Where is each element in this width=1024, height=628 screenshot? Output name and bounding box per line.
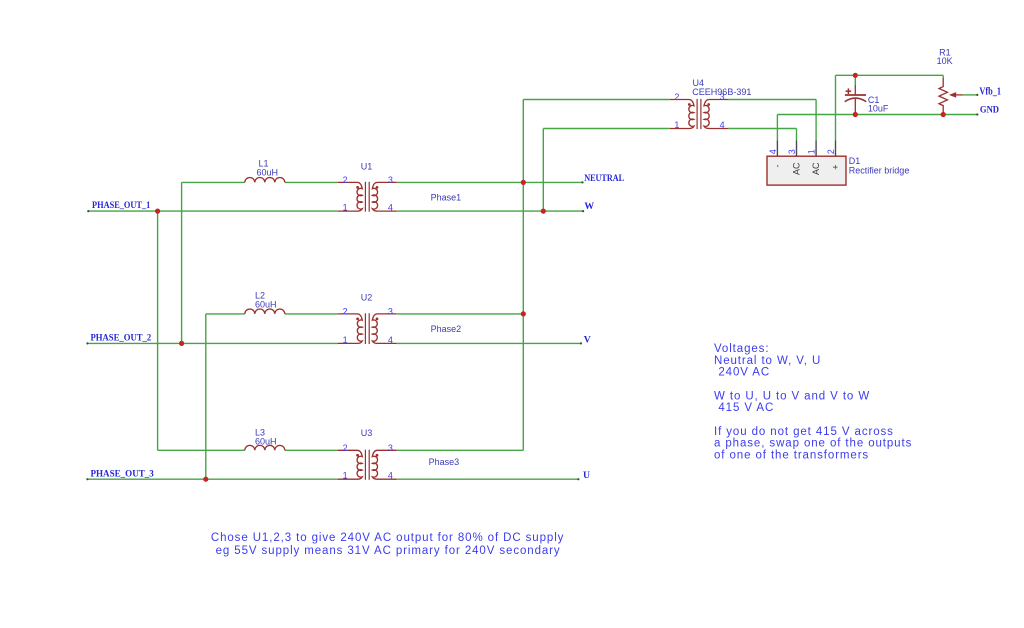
junction PHASE_OUT_2 bus — [179, 341, 184, 346]
wire L3 to U3 pin2 — [285, 449, 338, 451]
wire U1 pin3 to NEUTRAL — [397, 181, 583, 183]
svg-text:2: 2 — [343, 175, 348, 185]
wire U4 pin4 down to D1 pin3 — [796, 129, 798, 141]
svg-text:2: 2 — [343, 307, 348, 317]
junction neutral bus Phase2 — [521, 311, 526, 316]
junction top rail C1 — [853, 73, 858, 78]
svg-text:4: 4 — [388, 203, 393, 213]
svg-text:U3: U3 — [361, 428, 373, 438]
endpoint GND — [976, 113, 978, 115]
D1 pin stub 1 — [815, 140, 817, 156]
wire U3 pin3 to neutral bus — [397, 449, 524, 451]
wire neutral bus vertical — [522, 100, 524, 451]
endpoint V — [580, 342, 582, 344]
svg-text:60uH: 60uH — [257, 168, 279, 178]
svg-text:4: 4 — [388, 335, 393, 345]
inductor L2 body — [245, 309, 285, 314]
D1 pin stub 4 — [776, 140, 778, 156]
wire W bus to U4 pin1 — [543, 128, 669, 130]
svg-text:2: 2 — [343, 443, 348, 453]
svg-text:AC: AC — [792, 162, 802, 175]
wire neutral bus to U4 pin2 — [523, 99, 669, 101]
wire L3 top left segment — [158, 449, 245, 451]
endpoint PHASE_OUT_3 — [86, 478, 88, 480]
D1 pin stub 2 — [835, 140, 837, 156]
wire U2 pin4 to V — [397, 342, 581, 344]
junction NEUTRAL Phase1 — [521, 180, 526, 185]
transformer U1 body — [338, 182, 362, 211]
wire R1 top lead green — [942, 75, 944, 79]
wire U3 pin4 to U — [397, 478, 579, 480]
svg-text:3: 3 — [388, 175, 393, 185]
wire vertical L1 to PHASE_OUT_2 — [181, 182, 183, 343]
wire U4 pin3 down to D1 pin1 — [815, 100, 817, 141]
wire L2 top left segment — [206, 313, 245, 315]
svg-text:PHASE_OUT_3: PHASE_OUT_3 — [91, 468, 154, 479]
svg-text:U2: U2 — [361, 293, 373, 303]
endpoint Vfb_1 — [976, 94, 978, 96]
svg-text:AC: AC — [811, 162, 821, 175]
svg-text:U1: U1 — [361, 161, 373, 171]
svg-text:60uH: 60uH — [255, 300, 277, 310]
wire D1 minus to GND rail — [776, 115, 778, 141]
wire GND rail — [777, 114, 977, 116]
wire D1 plus up — [835, 75, 837, 140]
wire PHASE_OUT_2 horizontal — [87, 342, 338, 344]
rectifier bridge D1 body — [767, 156, 846, 185]
svg-text:4: 4 — [388, 471, 393, 481]
wire U1 pin4 to W — [397, 210, 583, 212]
svg-text:3: 3 — [388, 307, 393, 317]
wire C1 top lead green — [854, 75, 856, 85]
svg-text:4: 4 — [768, 149, 778, 154]
inductor L1 body — [245, 177, 285, 182]
svg-text:2: 2 — [674, 92, 679, 102]
wire U4 pin4 right — [728, 128, 796, 130]
svg-text:Phase3: Phase3 — [429, 457, 460, 467]
transformer U3 body — [338, 450, 362, 479]
svg-text:PHASE_OUT_1: PHASE_OUT_1 — [92, 200, 150, 211]
wire L1 top left segment — [182, 181, 245, 183]
wire PHASE_OUT_3 horizontal — [87, 478, 338, 480]
svg-text:U: U — [583, 470, 590, 481]
svg-text:PHASE_OUT_2: PHASE_OUT_2 — [91, 333, 152, 344]
wire L1 to U1 pin2 — [285, 181, 338, 183]
svg-text:4: 4 — [720, 120, 725, 130]
svg-text:2: 2 — [826, 149, 836, 154]
endpoint PHASE_OUT_2 — [86, 342, 88, 344]
svg-text:60uH: 60uH — [255, 437, 277, 447]
transformer U4 body — [670, 100, 694, 129]
svg-text:GND: GND — [980, 105, 999, 116]
svg-text:1: 1 — [343, 335, 348, 345]
svg-text:Chose U1,2,3 to give 240V AC o: Chose U1,2,3 to give 240V AC output for … — [211, 532, 569, 557]
wire PHASE_OUT_1 horizontal — [88, 210, 338, 212]
wire L2 to U2 pin2 — [285, 313, 338, 315]
wire R1 bottom lead green — [942, 113, 944, 115]
endpoint W — [582, 210, 584, 212]
junction PHASE_OUT_3 bus — [203, 477, 208, 482]
resistor R1 body — [939, 78, 947, 113]
wire vertical PHASE_OUT_1 to L3 — [157, 211, 159, 450]
svg-text:10uF: 10uF — [868, 104, 889, 114]
endpoint NEUTRAL — [581, 181, 583, 183]
wire R1 wiper to Vfb_1 — [962, 94, 977, 96]
endpoint PHASE_OUT_1 — [87, 210, 89, 212]
svg-text:CEEH96B-391: CEEH96B-391 — [692, 87, 751, 97]
D1 pin stub 3 — [796, 140, 798, 156]
junction PHASE_OUT_1 bus — [155, 209, 160, 214]
svg-text:Phase1: Phase1 — [431, 192, 462, 202]
svg-text:W: W — [584, 201, 594, 212]
svg-text:-: - — [772, 165, 782, 168]
junction GND rail R1 — [941, 112, 946, 117]
wire vertical L2 to PHASE_OUT_3 — [205, 314, 207, 479]
svg-text:1: 1 — [674, 120, 679, 130]
svg-text:+: + — [831, 165, 841, 170]
transformer U2 body — [338, 314, 362, 344]
junction GND rail C1 — [853, 112, 858, 117]
capacitor C1 body — [845, 85, 867, 113]
svg-text:10K: 10K — [937, 56, 953, 66]
svg-text:Rectifier bridge: Rectifier bridge — [849, 165, 910, 175]
svg-text:1: 1 — [343, 203, 348, 213]
svg-text:Phase2: Phase2 — [431, 324, 462, 334]
svg-text:3: 3 — [787, 149, 797, 154]
svg-text:3: 3 — [388, 443, 393, 453]
wire top rail — [836, 74, 944, 76]
endpoint U — [577, 478, 579, 480]
inductor L3 body — [245, 445, 285, 450]
junction W Phase1 — [541, 209, 546, 214]
svg-text:1: 1 — [343, 471, 348, 481]
R1 wiper arrow — [956, 94, 963, 96]
svg-text:Vfb_1: Vfb_1 — [979, 86, 1001, 97]
svg-text:1: 1 — [807, 149, 817, 154]
wire C1 bottom lead green — [854, 112, 856, 115]
wire U2 pin3 to neutral bus — [397, 313, 524, 315]
svg-text:NEUTRAL: NEUTRAL — [584, 173, 624, 184]
svg-text:V: V — [584, 334, 591, 345]
wire U4 pin1 to W vertical — [542, 129, 544, 212]
wire U4 pin3 right — [728, 99, 816, 101]
svg-text:Voltages: Neutral to W, V, U 2: Voltages: Neutral to W, V, U 240V AC W t… — [714, 343, 916, 462]
